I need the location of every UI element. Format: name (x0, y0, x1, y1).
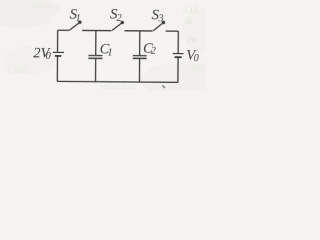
svg-text:0: 0 (194, 53, 199, 64)
svg-text:the: the (187, 35, 197, 44)
svg-text:0: 0 (46, 51, 51, 62)
svg-text:of: of (185, 17, 192, 26)
svg-text:elas: elas (189, 63, 201, 72)
svg-text:1: 1 (107, 47, 112, 58)
svg-text:im asnelis ar: im asnelis ar (20, 1, 61, 10)
svg-text:3: 3 (158, 13, 164, 24)
svg-text:ve shin: ve shin (4, 66, 27, 75)
svg-text:1: 1 (76, 13, 81, 24)
svg-text:2: 2 (117, 13, 122, 24)
svg-text:2: 2 (151, 46, 156, 57)
svg-text:5 15: 5 15 (183, 5, 198, 15)
svg-text:melas shan: melas shan (100, 82, 135, 91)
